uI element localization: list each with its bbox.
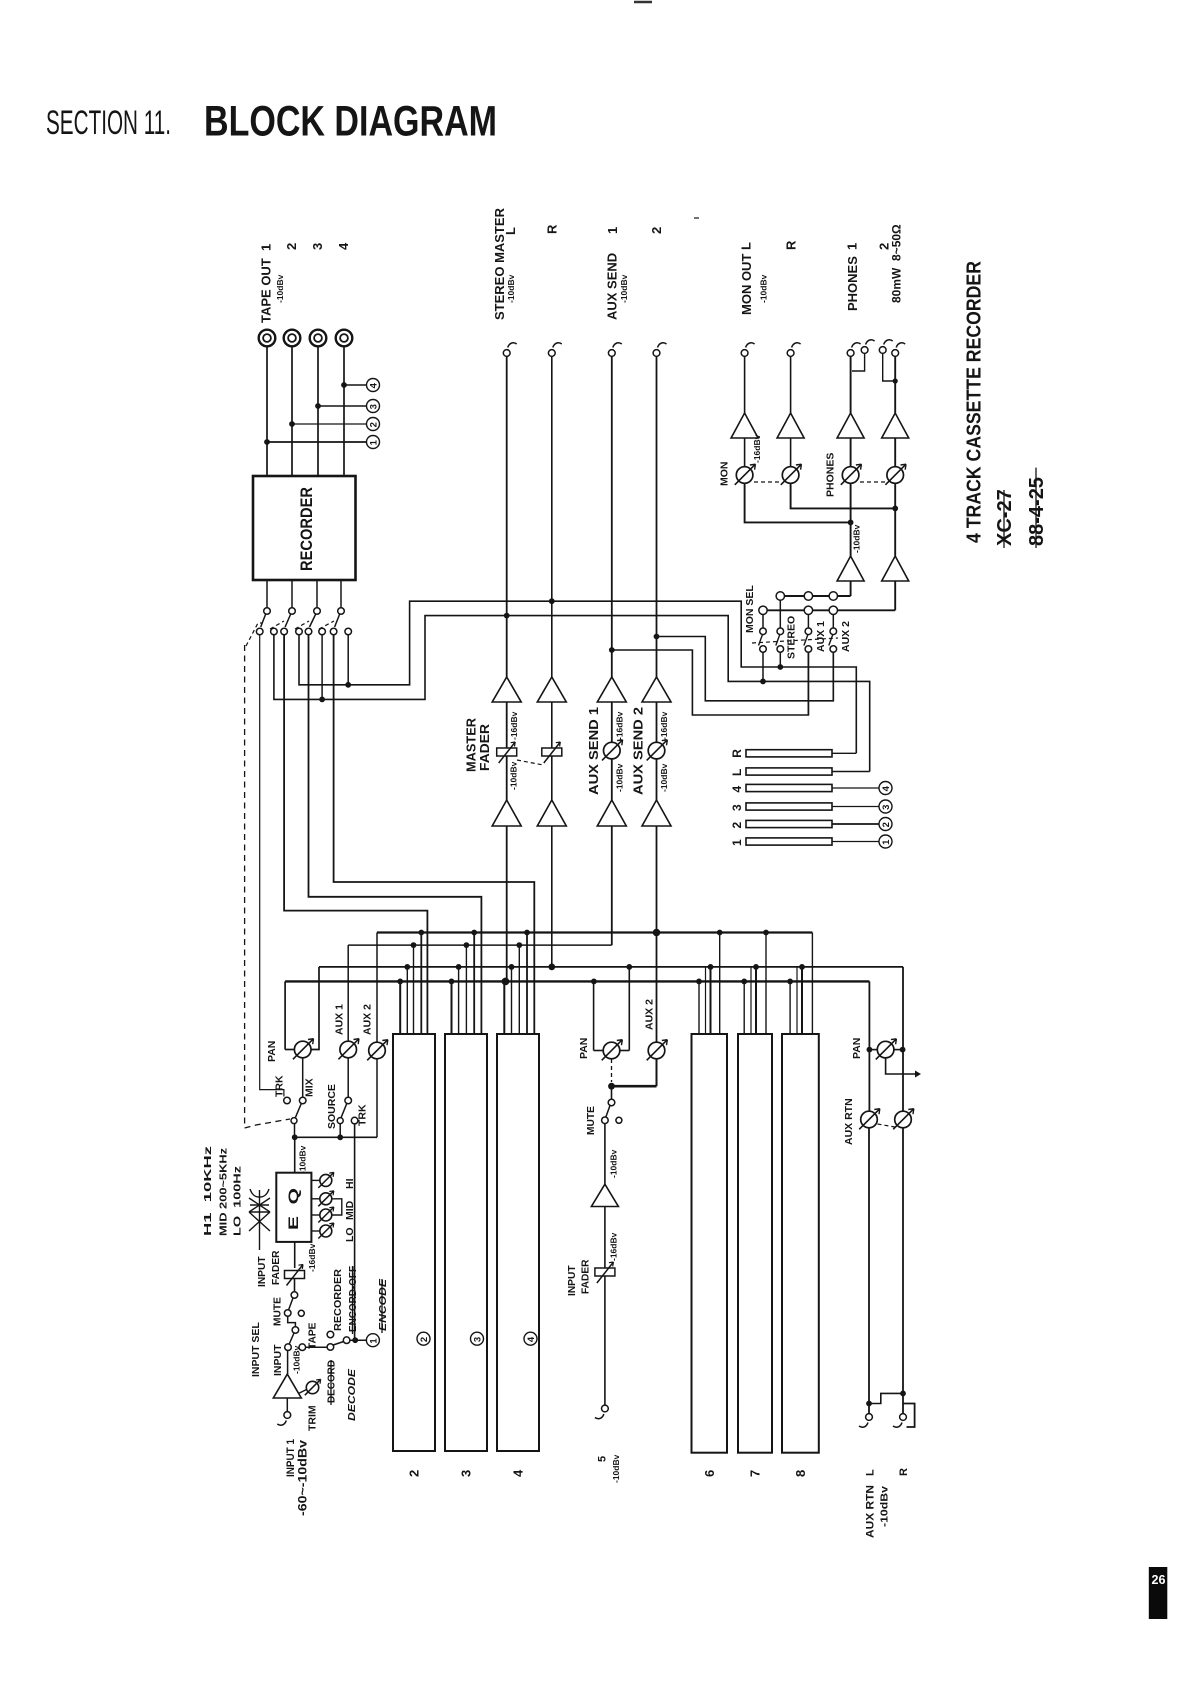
jack AUX SEND 1 xyxy=(608,343,621,357)
contact mute bottom ch1 xyxy=(284,1310,291,1317)
bus AUX1 xyxy=(348,944,612,946)
svg-text:PAN: PAN xyxy=(266,1041,278,1062)
wire bus R to aux rtn chain xyxy=(902,967,904,1112)
wire aux2 to pot xyxy=(656,702,658,743)
lever input sel ch1 xyxy=(289,1333,294,1344)
wire pan ch5 left stub xyxy=(594,1050,604,1052)
wire eq stub 2 xyxy=(311,1198,319,1200)
wire stereo R to fader xyxy=(551,702,553,748)
amp stereo R out xyxy=(537,800,566,826)
junction aux send2 bus xyxy=(653,929,661,937)
contact monsel row1 x780.3 xyxy=(776,592,784,600)
junction tape3 branch xyxy=(315,403,321,409)
wire monsel row2 xyxy=(763,609,895,611)
jack STEREO MASTER L xyxy=(503,343,516,357)
svg-text:INPUT: INPUT xyxy=(257,1256,268,1287)
junction feed strip7 c xyxy=(753,964,759,970)
jack PHONES 2 tip xyxy=(879,340,892,354)
wire phones2 ring bridge xyxy=(883,354,896,382)
wire stereo L to bus xyxy=(506,826,508,981)
node circled in strip 2 xyxy=(417,1332,430,1345)
wire monsel aux1 drop xyxy=(807,652,809,715)
svg-text:MUTE: MUTE xyxy=(586,1106,597,1135)
svg-text:4: 4 xyxy=(511,1469,526,1477)
amp stereo L out xyxy=(492,800,521,826)
wire EQ to input fader ch1 xyxy=(294,1242,296,1268)
wire feed strip7 d xyxy=(765,933,767,1035)
dashed gang rec sw 4 xyxy=(319,621,334,629)
wire monitor bus A xyxy=(274,616,870,772)
wire feed strip7 a xyxy=(743,981,745,1034)
svg-text:L: L xyxy=(730,769,744,776)
junction feed strip4 x527 xyxy=(524,930,530,936)
svg-text:DECORD: DECORD xyxy=(327,1360,338,1403)
contact monsel lever 780.3 xyxy=(777,628,784,635)
dashed gang master faders xyxy=(517,760,543,765)
page number box xyxy=(1149,1567,1168,1619)
wire ch5 fader to jack xyxy=(604,1276,606,1405)
svg-text:1: 1 xyxy=(845,243,860,250)
junction feed strip3 x474.2 xyxy=(471,930,477,936)
wire monsel stereoL drop xyxy=(762,652,764,681)
scan artifact top center 2 xyxy=(694,217,699,219)
wire aux2 tap to monsel xyxy=(657,637,834,701)
svg-text:2: 2 xyxy=(407,1470,422,1477)
wire feed strip8 d (bus end) xyxy=(811,933,813,1035)
contact monsel lever 808.4 xyxy=(805,628,812,635)
svg-text:XC-27: XC-27 xyxy=(994,489,1016,546)
wire eq stub 1 xyxy=(311,1179,319,1181)
contact TRK ch1 xyxy=(284,1097,291,1104)
wire trk line ch1 (from switch) xyxy=(260,635,284,1097)
junction feed strip3 x458.6 xyxy=(456,964,462,970)
svg-text:-60~-10dBv: -60~-10dBv xyxy=(298,1439,310,1516)
switch throw rec 3a xyxy=(305,628,312,635)
wire feed strip6 b xyxy=(705,967,707,1034)
junction pan ch5 L xyxy=(591,979,597,985)
svg-text:3: 3 xyxy=(459,1470,474,1477)
wire bus L to aux rtn chain xyxy=(868,981,870,1111)
junction feed strip3 x466.4 xyxy=(464,942,470,948)
dashed gang recorder switches xyxy=(246,623,262,646)
junction feed strip2 x413.5 xyxy=(411,942,417,948)
scan artifact top center xyxy=(634,1,652,4)
dashed gang into mix switch xyxy=(245,1119,290,1128)
master fader L xyxy=(497,742,517,763)
svg-text:INPUT SEL: INPUT SEL xyxy=(250,1322,262,1377)
wire monsel col 780.3 xyxy=(779,600,781,628)
svg-text:MIX: MIX xyxy=(303,1078,315,1097)
pot TRIM ch1 xyxy=(305,1379,321,1395)
junction pan ch5 R xyxy=(626,964,632,970)
svg-text:5: 5 xyxy=(596,1456,608,1462)
wire aux1 down xyxy=(611,357,613,678)
arrow pan wiper end xyxy=(915,1071,921,1078)
wire bus R to pan ch5 xyxy=(628,967,630,1051)
svg-text:FADER: FADER xyxy=(580,1259,591,1294)
svg-text:MASTER: MASTER xyxy=(465,718,479,772)
svg-text:4: 4 xyxy=(336,242,351,250)
pot PAN ch5 xyxy=(602,1040,623,1061)
svg-text:PAN: PAN xyxy=(851,1038,863,1059)
wire aux1 tap to monsel xyxy=(612,650,809,715)
svg-text:E Q: E Q xyxy=(285,1188,301,1230)
wire tape out 3 to recorder xyxy=(317,347,319,477)
wire amp to input jack xyxy=(286,1398,288,1412)
svg-text:SECTION 11.: SECTION 11. xyxy=(46,104,171,142)
wire feed strip4 from bus y932.5 xyxy=(526,933,528,1035)
wire tape out 1 to recorder xyxy=(266,347,268,477)
wire aux2 to bus1 and ch5 pot xyxy=(656,826,658,1043)
wire mon L amp to pot xyxy=(744,438,746,467)
wire ch1 node line xyxy=(295,1136,377,1138)
switch throw rec 1a xyxy=(256,628,263,635)
recorder block xyxy=(253,476,356,580)
wire aux2 pot to amp xyxy=(656,759,658,800)
wire aux2 down xyxy=(656,357,658,678)
switch lever rec 3 xyxy=(310,615,316,628)
svg-text:DECODE: DECODE xyxy=(346,1368,358,1421)
wire aux rtn normalling jumper xyxy=(869,1393,903,1403)
contact mute bottom ch5 xyxy=(602,1117,609,1124)
svg-text:MON OUT: MON OUT xyxy=(739,254,754,315)
wire ch5 amp to fader xyxy=(604,1207,606,1269)
svg-text:-10dBv: -10dBv xyxy=(609,1149,619,1178)
svg-text:26: 26 xyxy=(1152,1573,1166,1587)
junction throw3b on bus A xyxy=(319,697,325,703)
switch lever rec 4 xyxy=(335,615,340,628)
wire monsel row1 xyxy=(780,595,850,597)
pot PHONES level 2 xyxy=(885,464,906,485)
pot AUX RTN R xyxy=(893,1109,914,1130)
wire meter R to monsel xyxy=(832,752,856,754)
switch lever rec 1 xyxy=(261,615,266,628)
label ENCORD-OFF struck xyxy=(348,1266,359,1334)
master fader R xyxy=(542,742,562,763)
contact encode ch1 xyxy=(343,1337,350,1344)
svg-text:AUX SEND 1: AUX SEND 1 xyxy=(587,707,601,795)
svg-text:1: 1 xyxy=(368,1338,379,1344)
junction mon R tap xyxy=(892,506,898,512)
junction pan auxrtn R xyxy=(900,1047,906,1053)
svg-text:7: 7 xyxy=(748,1470,763,1477)
wire feed strip8 c xyxy=(801,967,803,1034)
svg-text:4: 4 xyxy=(730,786,744,793)
contact mute spare ch1 xyxy=(298,1310,304,1316)
meter bar 2 xyxy=(746,820,832,827)
wire feed strip2 from bus y966.9 xyxy=(406,967,408,1034)
wire to node 3 xyxy=(318,405,367,407)
svg-text:HI: HI xyxy=(344,1178,356,1189)
junction monsel stereo R on bus B xyxy=(777,664,783,670)
junction feed strip2 x421.3 xyxy=(418,930,424,936)
contact TAPE ch1 xyxy=(299,1344,306,1351)
junction aux rtn R normal xyxy=(900,1391,906,1397)
svg-text:R: R xyxy=(898,1468,910,1476)
jack INPUT 1 xyxy=(277,1412,290,1426)
svg-text:-10dBv: -10dBv xyxy=(759,274,769,303)
contact MIX ch1 xyxy=(299,1097,306,1104)
wire feed strip6 d xyxy=(719,933,721,1035)
svg-text:4 TRACK CASSETTE RECORDER: 4 TRACK CASSETTE RECORDER xyxy=(962,261,985,543)
channel strip 6 box xyxy=(692,1034,728,1453)
wire feed strip7 c xyxy=(755,967,757,1034)
jack TAPE OUT 1 (RCA) xyxy=(259,330,276,347)
pot PAN ch1 xyxy=(293,1039,314,1060)
wire feed strip8 b xyxy=(796,967,798,1034)
lever mix/trk ch1 xyxy=(296,1104,302,1118)
wire trk feed strip4 xyxy=(334,635,535,1034)
svg-text:-16dBv: -16dBv xyxy=(752,434,762,463)
dashed gang rec sw 2 xyxy=(270,621,284,629)
junction feed strip3 x451.5 xyxy=(449,979,455,985)
wire recorder out 3 xyxy=(316,580,318,608)
wire ch5 node to aux2 pot xyxy=(656,1059,658,1086)
wire feed strip6 c xyxy=(710,967,712,1034)
contact monsel row2 x808.4 xyxy=(804,606,812,614)
wire feed strip3 from bus y945.1 xyxy=(465,945,467,1034)
wire aux2 bus end to pot ch1 xyxy=(376,933,378,1043)
wire feed strip2 from bus y932.5 xyxy=(420,933,422,1035)
svg-text:2: 2 xyxy=(284,243,299,250)
amp phones drive 2 xyxy=(882,556,909,581)
node 3 circled xyxy=(367,400,380,413)
bus AUX2 xyxy=(377,931,812,933)
wire mix pivot down ch1 xyxy=(294,1124,296,1138)
pot MON level L xyxy=(735,464,756,485)
pot AUX SEND 2 master xyxy=(647,740,668,761)
svg-text:-16dBv: -16dBv xyxy=(307,1243,317,1272)
junction aux2 monitor tap xyxy=(654,634,660,640)
svg-text:L: L xyxy=(739,242,754,250)
wire monsel aux2 drop xyxy=(832,652,834,701)
svg-text:-10dBv: -10dBv xyxy=(292,1345,302,1374)
amp phones drive 1 xyxy=(837,556,864,581)
svg-text:TRIM: TRIM xyxy=(306,1405,318,1431)
wire trk feed strip3 xyxy=(309,635,482,1034)
junction feed strip7 a xyxy=(741,979,747,985)
jack MON OUT R xyxy=(787,343,800,357)
svg-text:AUX 1: AUX 1 xyxy=(815,621,827,652)
wire amp to trim pot xyxy=(299,1390,307,1394)
wire aux1 pot ch1 to source sw xyxy=(347,1058,349,1097)
svg-text:L: L xyxy=(503,227,518,235)
wire stereo L down xyxy=(506,357,508,678)
junction feed strip2 x407.3 xyxy=(404,964,410,970)
svg-text:-16dBv: -16dBv xyxy=(659,711,669,740)
meter bar L xyxy=(746,768,832,775)
svg-text:MON: MON xyxy=(718,462,730,487)
jack TAPE OUT 2 (RCA) xyxy=(284,330,301,347)
svg-text:RECORDER: RECORDER xyxy=(333,1268,344,1331)
svg-text:AUX 2: AUX 2 xyxy=(840,621,852,652)
svg-text:-10dBv: -10dBv xyxy=(619,274,629,303)
contact TRK2 ch1 xyxy=(351,1117,358,1124)
svg-text:-10dBv: -10dBv xyxy=(611,1454,621,1483)
svg-text:MON SEL: MON SEL xyxy=(744,585,756,633)
junction feed strip7 d xyxy=(763,930,769,936)
wire feed strip4 from bus y966.9 xyxy=(511,967,513,1034)
svg-text:4: 4 xyxy=(526,1336,537,1342)
input fader ch5 xyxy=(595,1262,615,1283)
wire throw3b to bus A xyxy=(321,635,323,699)
junction feed strip4 x519.3 xyxy=(516,942,522,948)
wire ch5 node line xyxy=(612,1085,657,1088)
svg-text:STEREO MASTER: STEREO MASTER xyxy=(492,207,507,320)
pot AUX SEND 1 master xyxy=(602,740,623,761)
switch throw rec 4a xyxy=(330,628,337,635)
junction source on node line xyxy=(337,1134,343,1140)
wire aux rtn R frame bracket xyxy=(903,1404,915,1428)
wire phones2 jack to amp xyxy=(894,357,896,414)
svg-text:TRK: TRK xyxy=(356,1104,368,1126)
meter bar 4 xyxy=(746,784,832,791)
label DECORD struck xyxy=(327,1360,338,1405)
svg-text:2: 2 xyxy=(730,822,744,829)
wire bus L end to pan ch1 xyxy=(284,981,286,1049)
wire to node 4 xyxy=(344,384,367,386)
junction mon L tap xyxy=(848,520,854,526)
svg-text:-10dBv: -10dBv xyxy=(852,524,862,553)
contact INPUT ch1 xyxy=(285,1344,292,1351)
pot EQ LO xyxy=(318,1223,334,1239)
switch pole rec 1 xyxy=(264,608,271,615)
svg-text:INPUT: INPUT xyxy=(567,1265,578,1296)
wire ch5 node to mute xyxy=(611,1086,613,1099)
node 2 circled xyxy=(367,418,380,431)
channel strip 8 box xyxy=(782,1034,819,1453)
amp mic/line ch1 xyxy=(273,1374,301,1398)
contact monsel row2 x833.3 xyxy=(829,606,837,614)
wire feed strip8 a xyxy=(789,981,791,1034)
node 1 circled xyxy=(367,436,380,449)
contact SOURCE ch1 xyxy=(345,1097,352,1104)
wire input contact to amp xyxy=(287,1351,289,1375)
svg-text:-16dBv: -16dBv xyxy=(609,1232,619,1261)
amp stereo R buffer xyxy=(537,677,566,702)
wire tape out 4 to recorder xyxy=(343,347,345,477)
svg-text:INPUT: INPUT xyxy=(272,1344,284,1376)
pot EQ HI xyxy=(318,1172,334,1188)
wire pan ch1 wiper to mix xyxy=(302,1058,304,1097)
svg-text:1: 1 xyxy=(605,227,620,234)
switch throw rec 3b xyxy=(319,628,326,635)
wire pan ch1 left stub xyxy=(285,1049,294,1051)
jack AUX RTN L xyxy=(859,1414,872,1428)
junction tape1 branch xyxy=(264,439,270,445)
bus L (stereo left mix) xyxy=(285,980,869,982)
svg-text:3: 3 xyxy=(310,243,325,250)
svg-text:FADER: FADER xyxy=(478,724,492,771)
junction ch5 node xyxy=(608,1083,615,1090)
caption 88-4-25 struck xyxy=(1026,468,1048,548)
svg-text:SOURCE: SOURCE xyxy=(326,1084,338,1129)
wire trk contact down to encode sw xyxy=(354,1124,356,1340)
wire tape contact to encode sw xyxy=(306,1346,328,1348)
meter bar R xyxy=(746,750,832,757)
wire fader to mute ch1 xyxy=(294,1279,296,1292)
amp phones 1 xyxy=(837,413,864,438)
svg-text:3: 3 xyxy=(368,404,379,409)
pot AUX 2 ch5 xyxy=(647,1040,668,1061)
svg-text:1: 1 xyxy=(368,439,379,445)
pot EQ MID b xyxy=(318,1207,334,1223)
pot AUX 2 ch1 xyxy=(367,1040,388,1061)
svg-text:R: R xyxy=(783,240,798,250)
svg-text:3: 3 xyxy=(881,805,892,810)
wire meter1 to node xyxy=(832,841,879,843)
switch lever rec 2 xyxy=(285,615,290,628)
wire feed strip2 from bus y981.4 xyxy=(399,981,401,1034)
wire MID pots bracket xyxy=(332,1199,342,1215)
junction feed strip2 x400.2 xyxy=(397,979,403,985)
svg-text:AUX RTN: AUX RTN xyxy=(864,1485,876,1538)
wire meter L to monsel xyxy=(832,771,870,773)
pot AUX 1 ch1 xyxy=(338,1039,359,1060)
junction feed strip8 c xyxy=(799,964,805,970)
wire source pivot down xyxy=(339,1124,341,1138)
contact RECORDER ch1 xyxy=(327,1331,334,1338)
wire pan auxrtn left stub xyxy=(869,1049,877,1051)
svg-text:RECORDER: RECORDER xyxy=(297,487,316,571)
svg-text:80mW 8~50Ω: 80mW 8~50Ω xyxy=(889,224,903,303)
svg-text:TAPE: TAPE xyxy=(308,1322,319,1349)
junction tape2 branch xyxy=(289,421,295,427)
wire phones2 pot down xyxy=(894,484,896,557)
dashed gang line to channel switches xyxy=(244,645,246,1128)
wire stereo R to bus xyxy=(551,826,553,967)
channel strip 3 box xyxy=(445,1034,487,1451)
jack MON OUT L xyxy=(741,343,754,357)
junction feed strip6 d xyxy=(717,930,723,936)
wire feed strip3 from bus y981.4 xyxy=(451,981,453,1034)
amp ch5 xyxy=(591,1184,618,1206)
switch throw rec 2a xyxy=(281,628,288,635)
jack PHONES 2 ring xyxy=(892,343,905,357)
junction aux1 monitor tap xyxy=(609,647,615,653)
svg-text:-16dBv: -16dBv xyxy=(615,711,625,740)
svg-text:PHONES: PHONES xyxy=(845,256,860,311)
wire eq stub 3 xyxy=(311,1214,319,1216)
pivot source switch ch1 xyxy=(337,1118,343,1124)
wire pan auxrtn wiper xyxy=(886,1058,915,1074)
wire to node 2 xyxy=(292,423,367,425)
dashed gang rec sw 3 xyxy=(295,621,309,629)
pole input sel ch1 xyxy=(292,1327,299,1334)
wire feed strip4 from bus y945.1 xyxy=(518,945,520,1034)
svg-text:-16dBv: -16dBv xyxy=(509,711,519,740)
wire phones1 amp to monsel row1 xyxy=(850,581,852,596)
svg-text:ENCORD-OFF: ENCORD-OFF xyxy=(348,1266,359,1332)
svg-text:R: R xyxy=(730,749,744,758)
svg-text:AUX SEND: AUX SEND xyxy=(605,253,620,320)
jack PHONES 1 tip xyxy=(847,343,860,357)
contact mute spare ch5 xyxy=(616,1117,622,1123)
svg-text:-10dBv: -10dBv xyxy=(509,761,519,790)
wire mon R pot to phones2 line xyxy=(791,484,896,509)
amp aux2 out xyxy=(642,800,671,826)
amp mon out R xyxy=(777,413,804,438)
node 1 circled meters xyxy=(879,835,892,848)
junction stereoL on bus A xyxy=(504,613,510,619)
wire aux rtn L pot to jack xyxy=(868,1128,870,1414)
junction pan auxrtn L xyxy=(867,1047,873,1053)
wire phones1 pot down xyxy=(850,484,852,557)
wire monsel col 808.4 xyxy=(807,615,809,629)
amp aux1 buffer xyxy=(597,677,626,702)
junction stereo L bus L xyxy=(502,978,510,986)
dashed gang phones pots xyxy=(860,481,886,483)
